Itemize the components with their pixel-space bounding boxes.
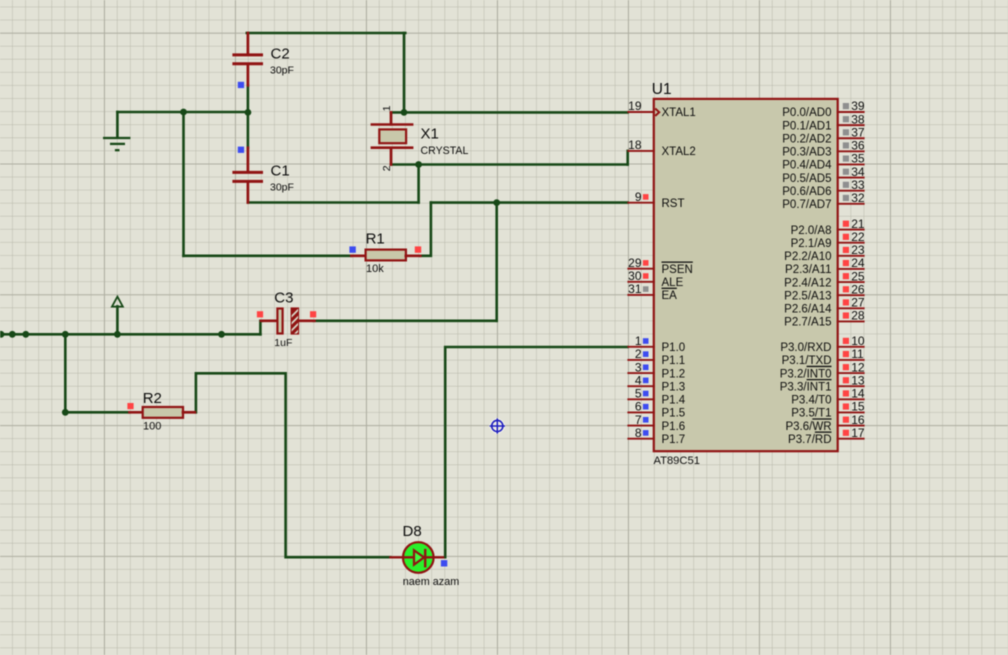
pin 33 P0.6/AD6 <box>782 178 865 198</box>
junction rail / power arrow <box>114 331 121 338</box>
wire RST net down to C3 <box>495 203 498 321</box>
op-amp U1 AT89C51 microcontroller body <box>654 99 838 451</box>
pin 31 EA <box>627 282 677 302</box>
wire LED cathode up to pin 1 P1.0 <box>445 347 627 557</box>
svg-text:P1.5: P1.5 <box>662 408 686 420</box>
svg-text:ALE: ALE <box>662 277 684 289</box>
wire vertical up to XTAL2 net <box>417 165 420 203</box>
wire R1 right up to RST net <box>420 203 431 256</box>
pin 26 P2.5/A13 <box>784 282 865 302</box>
svg-text:35: 35 <box>851 152 865 166</box>
svg-text:C3: C3 <box>274 289 293 306</box>
svg-text:P0.3/AD3: P0.3/AD3 <box>782 147 831 159</box>
junction rail dot 1 <box>0 331 4 338</box>
pin 4 P1.3 <box>627 373 685 393</box>
svg-text:36: 36 <box>851 139 865 153</box>
svg-text:P1.4: P1.4 <box>662 395 686 407</box>
pin 28 P2.7/A15 <box>784 309 865 329</box>
svg-text:30pF: 30pF <box>270 65 294 77</box>
svg-text:P0.1/AD1: P0.1/AD1 <box>782 120 831 132</box>
svg-text:17: 17 <box>851 426 865 440</box>
svg-text:8: 8 <box>635 426 642 440</box>
junction rail dot 3 <box>22 331 29 338</box>
svg-text:16: 16 <box>851 413 865 427</box>
svg-text:1uF: 1uF <box>274 337 292 349</box>
svg-text:18: 18 <box>628 138 642 152</box>
svg-text:10: 10 <box>851 334 865 348</box>
pin 36 P0.3/AD3 <box>782 139 865 159</box>
svg-text:3: 3 <box>635 360 642 374</box>
svg-text:6: 6 <box>635 400 642 414</box>
svg-text:P0.4/AD4: P0.4/AD4 <box>782 160 832 172</box>
svg-text:1: 1 <box>381 105 393 111</box>
pin 16 P3.6/WR <box>785 413 864 433</box>
svg-text:P3.5/T1: P3.5/T1 <box>791 408 831 420</box>
junction C1-C2 midpoint <box>245 109 252 116</box>
svg-text:5: 5 <box>635 387 642 401</box>
svg-text:C2: C2 <box>271 46 290 63</box>
wire R2 right to LED anode <box>196 373 391 557</box>
svg-text:30pF: 30pF <box>270 182 294 194</box>
svg-text:10k: 10k <box>366 263 384 275</box>
pin 17 P3.7/RD <box>788 426 865 446</box>
svg-text:P2.5/A13: P2.5/A13 <box>784 290 831 302</box>
svg-text:26: 26 <box>851 282 865 296</box>
svg-text:X1: X1 <box>421 125 439 142</box>
svg-text:P1.7: P1.7 <box>662 434 686 446</box>
svg-text:U1: U1 <box>652 81 672 98</box>
svg-text:P0.5/AD5: P0.5/AD5 <box>782 173 831 185</box>
svg-text:XTAL2: XTAL2 <box>662 146 696 158</box>
capacitor C3 <box>261 307 314 341</box>
svg-text:P1.1: P1.1 <box>662 355 686 367</box>
pin 32 P0.7/AD7 <box>782 191 865 211</box>
svg-text:naem azam: naem azam <box>403 576 459 588</box>
pin 37 P0.2/AD2 <box>782 125 865 145</box>
pin 29 PSEN <box>627 256 692 276</box>
svg-text:33: 33 <box>851 178 865 192</box>
svg-text:30: 30 <box>628 269 642 283</box>
power terminal arrow <box>112 297 123 307</box>
svg-text:28: 28 <box>851 309 865 323</box>
wire step up to pin 18 <box>626 151 629 165</box>
pin 2 P1.1 <box>627 347 685 367</box>
svg-text:P2.7/A15: P2.7/A15 <box>784 317 831 329</box>
pin state square C1.1 <box>238 147 244 153</box>
pin 38 P0.1/AD1 <box>782 112 865 132</box>
wire rail down to R2 <box>64 334 67 412</box>
pin 13 P3.3/INT1 <box>780 373 865 393</box>
wire to R1 left terminal <box>184 255 352 258</box>
pin 34 P0.5/AD5 <box>782 165 865 185</box>
pin 12 P3.2/INT0 <box>780 360 865 380</box>
led D8 <box>390 542 443 573</box>
svg-text:P3.7/RD: P3.7/RD <box>788 434 831 446</box>
svg-text:39: 39 <box>851 99 865 113</box>
junction XTAL1 node <box>401 109 408 116</box>
svg-text:22: 22 <box>851 230 865 244</box>
ground <box>103 112 130 150</box>
crystal X1 <box>372 112 412 164</box>
svg-text:38: 38 <box>851 112 865 126</box>
capacitor C2 <box>234 33 262 85</box>
junction rail dot near C3 <box>218 331 225 338</box>
svg-text:EA: EA <box>662 290 678 302</box>
wire XTAL1 net to pin 19 <box>391 111 628 114</box>
svg-text:P2.2/A10: P2.2/A10 <box>784 251 831 263</box>
pin 39 P0.0/AD0 <box>782 99 865 119</box>
svg-text:31: 31 <box>628 282 642 296</box>
pin 8 P1.7 <box>627 426 685 446</box>
wire C1 bottom to XTAL2 branch <box>248 201 419 204</box>
wire between C2 and C1 <box>247 85 250 148</box>
svg-text:P3.3/INT1: P3.3/INT1 <box>780 381 832 393</box>
junction RST / C3 node <box>493 199 500 206</box>
svg-text:2: 2 <box>381 165 393 171</box>
pin 5 P1.4 <box>627 387 685 407</box>
svg-text:P1.6: P1.6 <box>662 421 686 433</box>
pin 3 P1.2 <box>627 360 685 380</box>
svg-text:27: 27 <box>851 296 865 310</box>
svg-text:1: 1 <box>635 334 642 348</box>
wire RST net to pin 9 <box>431 201 628 204</box>
pin 6 P1.5 <box>627 400 685 420</box>
svg-text:2: 2 <box>635 347 642 361</box>
svg-text:PSEN: PSEN <box>662 264 693 276</box>
svg-text:P3.2/INT0: P3.2/INT0 <box>780 368 832 380</box>
pin 11 P3.1/TXD <box>782 347 865 367</box>
svg-text:100: 100 <box>143 421 161 433</box>
svg-text:P0.6/AD6: P0.6/AD6 <box>782 186 831 198</box>
svg-text:37: 37 <box>851 125 865 139</box>
wire rail corner up to C3 left <box>260 321 262 335</box>
pin 14 P3.4/T0 <box>791 387 865 407</box>
pin 19 XTAL1 <box>627 99 695 119</box>
svg-text:XTAL1: XTAL1 <box>662 107 696 119</box>
svg-text:P3.6/WR: P3.6/WR <box>785 421 831 433</box>
svg-text:P0.0/AD0: P0.0/AD0 <box>782 107 831 119</box>
svg-text:7: 7 <box>635 413 642 427</box>
svg-text:P2.4/A12: P2.4/A12 <box>784 277 831 289</box>
svg-text:C1: C1 <box>271 163 290 180</box>
svg-text:14: 14 <box>851 387 865 401</box>
pin 24 P2.3/A11 <box>785 256 865 276</box>
svg-text:D8: D8 <box>403 523 422 540</box>
svg-text:P0.2/AD2: P0.2/AD2 <box>782 133 831 145</box>
pin 27 P2.6/A14 <box>784 296 865 316</box>
svg-text:13: 13 <box>851 373 865 387</box>
wire C3 right terminal <box>314 319 497 322</box>
svg-text:21: 21 <box>851 217 865 231</box>
junction rail dot 2 <box>9 331 16 338</box>
wire left supply rail <box>0 333 260 336</box>
svg-text:9: 9 <box>635 190 642 204</box>
pin 21 P2.0/A8 <box>791 217 865 237</box>
wire C2 top to crystal node <box>247 32 405 35</box>
svg-text:R1: R1 <box>366 231 385 248</box>
resistor R1 <box>351 250 420 261</box>
svg-text:15: 15 <box>851 400 865 414</box>
pin state square C3.2 <box>310 311 316 317</box>
svg-text:P2.6/A14: P2.6/A14 <box>784 304 832 316</box>
resistor R2 <box>130 407 195 418</box>
pin 25 P2.4/A12 <box>784 269 865 289</box>
svg-text:P3.4/T0: P3.4/T0 <box>791 395 831 407</box>
pin 35 P0.4/AD4 <box>782 152 865 172</box>
pin state square D8.K <box>441 560 447 566</box>
svg-text:19: 19 <box>628 99 642 113</box>
svg-text:P2.0/A8: P2.0/A8 <box>791 225 832 237</box>
pin 1 P1.0 <box>627 334 685 354</box>
svg-text:CRYSTAL: CRYSTAL <box>421 145 469 157</box>
pin 22 P2.1/A9 <box>791 230 865 250</box>
pin 9 RST <box>627 190 684 210</box>
svg-text:11: 11 <box>851 347 864 361</box>
pin state square R2.1 <box>127 403 133 409</box>
svg-text:P1.0: P1.0 <box>662 342 686 354</box>
pin 30 ALE <box>627 269 683 289</box>
svg-text:24: 24 <box>851 256 865 270</box>
pin state square C2.2 <box>238 82 244 88</box>
wire vertical down to XTAL1 net <box>403 33 406 112</box>
svg-text:R2: R2 <box>143 390 162 407</box>
wire power arrow stem <box>116 306 119 334</box>
wire to R2 left terminal <box>65 411 129 414</box>
svg-text:P1.3: P1.3 <box>662 381 686 393</box>
capacitor C1 <box>234 148 262 203</box>
svg-text:P2.3/A11: P2.3/A11 <box>785 264 831 276</box>
svg-text:P2.1/A9: P2.1/A9 <box>791 238 832 250</box>
wire XTAL2 net horizontal <box>391 163 628 166</box>
cursor crosshair <box>489 418 505 434</box>
svg-text:25: 25 <box>851 269 865 283</box>
svg-text:12: 12 <box>851 360 865 374</box>
wire ground rail horizontal <box>117 111 249 114</box>
pin state square R1.2 <box>415 246 421 252</box>
pin 7 P1.6 <box>627 413 685 433</box>
svg-text:RST: RST <box>662 198 685 210</box>
pin 23 P2.2/A10 <box>784 243 865 263</box>
wire vertical ground to R1 <box>182 112 185 256</box>
svg-text:P1.2: P1.2 <box>662 368 686 380</box>
pin state square C3.1 <box>257 311 263 317</box>
pin state square R1.1 <box>349 246 355 252</box>
pin 10 P3.0/RXD <box>780 334 865 354</box>
svg-text:P3.1/TXD: P3.1/TXD <box>782 355 832 367</box>
svg-text:4: 4 <box>635 373 642 387</box>
svg-text:34: 34 <box>851 165 865 179</box>
junction rail / R2 branch <box>62 331 69 338</box>
pin 15 P3.5/T1 <box>791 400 865 420</box>
svg-text:32: 32 <box>851 191 865 205</box>
junction R2 left corner <box>62 409 69 416</box>
svg-text:29: 29 <box>628 256 642 270</box>
svg-text:P0.7/AD7: P0.7/AD7 <box>782 199 831 211</box>
svg-text:P3.0/RXD: P3.0/RXD <box>780 342 831 354</box>
pin 18 XTAL2 <box>627 138 695 158</box>
junction XTAL2 node <box>415 161 422 168</box>
svg-text:23: 23 <box>851 243 865 257</box>
junction ground rail / R1 branch <box>180 109 187 116</box>
svg-text:AT89C51: AT89C51 <box>654 455 700 467</box>
XTAL1 clock input arrow <box>655 109 659 116</box>
